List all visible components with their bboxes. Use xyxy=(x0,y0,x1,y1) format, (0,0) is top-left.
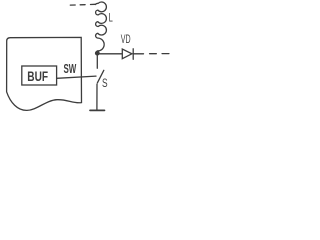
box BUF xyxy=(22,66,57,85)
ground xyxy=(90,109,105,111)
box IC outline (torn bottom) xyxy=(7,37,82,110)
svg-text:S: S xyxy=(102,76,108,90)
svg-text:SW: SW xyxy=(64,61,77,76)
svg-text:L: L xyxy=(109,11,113,25)
wire node to diode xyxy=(99,53,122,55)
wire dashed input (top) xyxy=(70,3,95,6)
node (junction dot) xyxy=(95,51,100,56)
switch S xyxy=(97,70,103,83)
svg-text:VD: VD xyxy=(121,32,131,46)
svg-text:BUF: BUF xyxy=(27,68,48,84)
wire switch to ground xyxy=(96,84,98,110)
inductor L xyxy=(95,2,106,51)
wire node down to switch xyxy=(96,55,98,68)
diode VD xyxy=(122,49,133,60)
wire SW control line xyxy=(57,76,96,78)
wire diode output xyxy=(133,53,143,55)
wire dashed output xyxy=(150,53,169,55)
